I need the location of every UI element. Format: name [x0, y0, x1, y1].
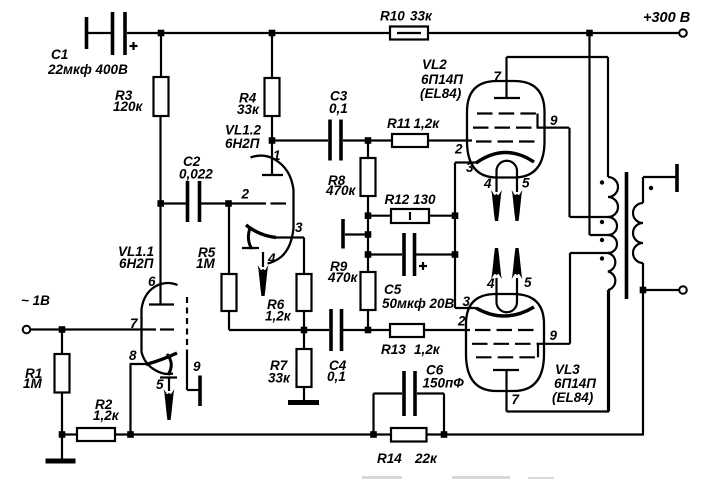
svg-text:VL2: VL2 [422, 57, 447, 72]
wire VL2 anode to transformer [507, 56, 609, 58]
svg-text:1,2к: 1,2к [414, 116, 441, 131]
control grid dashes pin 2 [476, 140, 535, 142]
resistor R9 470k [327, 259, 376, 330]
svg-text:2: 2 [241, 187, 250, 202]
wire VL1.1 cathode drop [129, 364, 131, 435]
resistor R8 470k [325, 141, 376, 273]
svg-text:33к: 33к [410, 9, 433, 24]
node input junction [59, 326, 66, 333]
resistor R4 33k [237, 33, 280, 141]
grid pin 7 dash [160, 328, 174, 330]
wire VL2 screen to tap 1 [568, 128, 570, 217]
cathode pin 3 [246, 225, 276, 238]
transformer primary winding [570, 33, 619, 412]
resistor R2 1,2k [62, 397, 120, 441]
anode pin 7 [493, 369, 519, 371]
svg-text:9: 9 [550, 113, 558, 128]
node C4 R9 junction [365, 327, 372, 334]
terminal output [679, 286, 687, 294]
node rail junction R3 [158, 30, 165, 37]
svg-text:3: 3 [466, 160, 474, 175]
svg-text:130: 130 [413, 192, 436, 207]
anode pin 6 plate [149, 303, 174, 305]
node R8 R12 junction [365, 212, 372, 219]
node secondary bottom junction [640, 287, 647, 294]
screen grid dashes pin 9 [473, 126, 538, 128]
suppressor grid dashes [476, 356, 538, 358]
svg-text:1М: 1М [23, 376, 43, 391]
capacitor C2 0,022 [161, 154, 230, 222]
node rail junction B+ [586, 30, 593, 37]
pin 9 shield [186, 297, 188, 351]
svg-text:9: 9 [550, 328, 558, 343]
anode pin 7 [494, 97, 520, 99]
node C6 right junction [441, 431, 448, 438]
envelope arc [251, 156, 294, 264]
capacitor C3 0,1 [329, 89, 392, 161]
tube VL1.1 6N2P triode [118, 244, 201, 420]
svg-text:0,022: 0,022 [179, 167, 213, 182]
node C2 right junction [225, 200, 232, 207]
heater arc pin 4 [248, 228, 252, 249]
cathode pin 3 [476, 152, 534, 163]
transformer secondary winding [633, 164, 677, 435]
svg-text:8: 8 [129, 348, 137, 363]
svg-text:150пФ: 150пФ [423, 376, 465, 391]
tube VL3 6P14P (EL84) [457, 248, 596, 412]
node R6 bottom junction [301, 327, 308, 334]
ground R7 [288, 400, 319, 405]
screen grid dashes pin 9 [472, 343, 538, 345]
faint caption remnant [362, 476, 554, 479]
wire cathode bus VL2-VL3 [454, 163, 456, 309]
svg-text:5: 5 [156, 377, 164, 392]
svg-text:5: 5 [522, 176, 530, 191]
node R4 bottom junction [269, 137, 276, 144]
cathode pin 8 [146, 353, 177, 365]
svg-text:(EL84): (EL84) [420, 86, 462, 101]
svg-text:(EL84): (EL84) [552, 390, 594, 405]
heater pins 4 5 [497, 278, 518, 312]
svg-text:0,1: 0,1 [329, 101, 348, 116]
heater arrow [262, 252, 264, 267]
resistor R10 33k [380, 9, 433, 40]
svg-text:120к: 120к [113, 99, 144, 114]
grid connector bar [536, 114, 538, 128]
wire junction to C3 [272, 139, 328, 141]
svg-text:4: 4 [267, 251, 276, 266]
svg-text:3: 3 [295, 220, 303, 235]
svg-text:R10: R10 [380, 9, 405, 24]
svg-text:6Н2П: 6Н2П [225, 136, 260, 151]
svg-text:9: 9 [193, 359, 201, 374]
svg-text:22мкф 400В: 22мкф 400В [47, 62, 128, 77]
suppressor grid dashes [477, 112, 538, 114]
heater arrow [168, 377, 170, 391]
envelope [466, 294, 544, 391]
svg-text:470к: 470к [325, 183, 357, 198]
svg-text:6П14П: 6П14П [421, 72, 463, 87]
wire bottom rail [115, 433, 644, 435]
wire R3 to VL1.1 anode [159, 116, 161, 305]
wire VL3 anode to transformer [507, 410, 610, 412]
capacitor C1 22mkf 400V [47, 12, 138, 77]
svg-text:1,2к: 1,2к [414, 342, 441, 357]
svg-text:1М: 1М [196, 256, 216, 271]
resistor R13 1,2k [381, 324, 470, 357]
capacitor C5 50mkf 20V [368, 233, 455, 311]
svg-text:4: 4 [483, 176, 492, 191]
svg-text:R11: R11 [387, 116, 411, 131]
resistor R14 22k [377, 428, 438, 466]
svg-text:+300 В: +300 В [643, 10, 690, 26]
node R12 right junction [452, 212, 459, 219]
svg-text:VL3: VL3 [555, 362, 580, 377]
grid connector bar [537, 344, 539, 358]
svg-text:6П14П: 6П14П [554, 376, 596, 391]
winding dots [600, 180, 604, 184]
capacitor C6 150pF [374, 363, 465, 435]
svg-text:R12: R12 [385, 192, 410, 207]
envelope [467, 81, 545, 178]
node grid bar junction [365, 231, 372, 238]
wire R5 bottom to R6 junction [229, 329, 304, 331]
capacitor C4 0,1 [304, 309, 390, 384]
anode pin 1 [271, 141, 273, 175]
tap 1 VL2 screen [570, 216, 612, 218]
svg-text:1,2к: 1,2к [93, 408, 120, 423]
wire VL1.2 grid lead [229, 202, 266, 204]
resistor R6 1,2k [265, 238, 312, 331]
node VL1.1 cathode junction [127, 431, 134, 438]
svg-text:R13: R13 [381, 342, 406, 357]
resistor R1 1M [23, 330, 70, 460]
tube VL2 6P14P (EL84) [420, 57, 569, 221]
node C6 left junction [370, 431, 377, 438]
svg-text:2: 2 [454, 142, 463, 157]
transformer core [625, 172, 629, 299]
resistor R5 1M [196, 204, 237, 331]
svg-text:~ 1В: ~ 1В [21, 293, 50, 308]
node C3 R8 junction [365, 137, 372, 144]
heater arc pin 5 [167, 354, 171, 375]
node C5 left junction [365, 251, 372, 258]
wire top rail right [428, 32, 679, 34]
resistor R12 130 [368, 192, 455, 223]
grid bar electrode [343, 219, 368, 249]
svg-text:6Н2П: 6Н2П [119, 256, 154, 271]
svg-text:22к: 22к [414, 451, 438, 466]
heater pins 4 5 [497, 161, 518, 192]
svg-text:2: 2 [457, 314, 466, 329]
tube VL1.2 6N2P triode [225, 123, 304, 297]
svg-text:5: 5 [524, 275, 532, 290]
resistor R11 1,2k [387, 116, 472, 147]
tap 3 VL3 screen [570, 252, 611, 254]
tap 2 B+ [588, 33, 590, 235]
svg-text:4: 4 [486, 276, 495, 291]
resistor R3 120k [113, 33, 169, 116]
svg-text:0,1: 0,1 [327, 369, 346, 384]
terminal input ~1V [21, 293, 156, 333]
svg-text:3: 3 [463, 294, 471, 309]
node C5 right junction [452, 251, 459, 258]
wire to output terminal [643, 289, 679, 291]
node R1 bottom junction [59, 431, 66, 438]
svg-text:C1: C1 [51, 47, 68, 62]
svg-text:470к: 470к [327, 270, 359, 285]
wire top rail [127, 32, 390, 34]
svg-text:33к: 33к [237, 102, 260, 117]
terminal +300V [643, 10, 690, 37]
svg-text:R14: R14 [377, 451, 402, 466]
node rail junction R4 [269, 30, 276, 37]
node C2 left junction [157, 200, 164, 207]
ground input [46, 459, 76, 464]
svg-text:C5: C5 [384, 282, 402, 297]
svg-text:1,2к: 1,2к [265, 309, 292, 324]
svg-text:33к: 33к [268, 371, 291, 386]
cathode pin 3 [476, 307, 534, 316]
svg-text:50мкф 20В: 50мкф 20В [382, 296, 455, 311]
grid pin 2 dash [271, 202, 287, 204]
envelope arc [142, 283, 178, 374]
control grid dashes pin 2 [475, 329, 534, 331]
wire VL3 screen to tap 3 [569, 253, 571, 344]
resistor R7 33k [268, 330, 312, 401]
